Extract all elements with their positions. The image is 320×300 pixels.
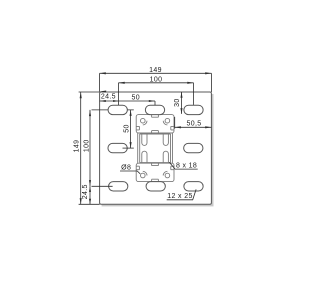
dimension lines (79, 73, 212, 204)
ext line row1 (92, 109, 134, 111)
svg-text:24.5: 24.5 (82, 184, 89, 199)
dim 100 left line (89, 110, 91, 186)
slot row3 col3 (184, 182, 203, 191)
ext line 100 left (118, 83, 120, 105)
leader 12x25 (167, 189, 196, 199)
slot throat top section bottom edge (152, 131, 159, 133)
arrow 30 top (180, 92, 182, 98)
arrow 100 left bottom (89, 180, 91, 186)
svg-text:12 x 25: 12 x 25 (167, 193, 192, 200)
web bottom line (140, 162, 171, 164)
svg-text:24.5: 24.5 (101, 94, 116, 101)
svg-text:50,5: 50,5 (186, 120, 201, 127)
slot throat bottom section bottom edge (152, 179, 159, 181)
arrow 24.5/50 mid (113, 100, 118, 102)
slot row1 col1 (108, 105, 127, 114)
profile cross-section top square (136, 115, 174, 133)
dimension texts (74, 67, 202, 200)
slot row3 col2 (146, 182, 165, 191)
profile cross-section bottom square (136, 163, 174, 181)
ext line row2 (123, 147, 134, 149)
web top line (140, 133, 171, 135)
arrow 50,5 right (205, 126, 211, 128)
slot row2 col1 (108, 143, 127, 152)
slot row1 col3 (184, 105, 203, 114)
plate shadow (102, 94, 214, 206)
boss arc bottom-right (163, 171, 167, 175)
arrow 149 left top (80, 92, 82, 98)
arrow 24.5 left (100, 100, 106, 102)
svg-text:Ø8: Ø8 (121, 164, 131, 171)
svg-text:100: 100 (150, 76, 163, 83)
ext line col2 (154, 101, 156, 105)
slot throat top section left edge (136, 126, 139, 129)
ext line 50,5 left (174, 117, 176, 129)
ext line row3 (92, 185, 113, 187)
left wall (138, 133, 140, 163)
arrow 100 top right (187, 82, 193, 84)
svg-text:100: 100 (83, 139, 90, 152)
ext line left bottom (79, 203, 100, 205)
dim 30 line (181, 92, 183, 114)
ext line top-right up (210, 73, 212, 92)
svg-text:149: 149 (149, 67, 162, 74)
plate 149x149 (100, 92, 212, 204)
slot throat bottom section left edge (136, 166, 139, 170)
arrow 149 top left (100, 72, 106, 74)
arrow 50 inner top (130, 110, 132, 116)
slot row2 col3 (184, 143, 203, 152)
slot row3 col1 (109, 182, 128, 191)
arrowheads (80, 72, 212, 204)
arrow 50 inner bottom (130, 142, 132, 148)
slot throat top section top edge (152, 115, 159, 118)
dim 24.5 left line (89, 186, 91, 204)
arrow 149 left bottom (80, 198, 82, 204)
arrow 24.5 left bottom (89, 199, 91, 205)
hook slot lower-right (163, 151, 168, 162)
dim 149 top line (100, 72, 212, 74)
arrow 50 right (149, 100, 155, 102)
svg-text:8 x 18: 8 x 18 (176, 163, 197, 170)
arrow 30 bottom (180, 108, 182, 114)
leader Ø8 (120, 171, 140, 174)
ext line 100 right (193, 83, 195, 105)
dim 50,5 line (175, 126, 212, 128)
svg-text:50: 50 (124, 124, 131, 133)
slot throat bottom section top edge (152, 163, 159, 165)
boss arc top-right (163, 121, 167, 125)
right wall (171, 133, 173, 163)
slot throat bottom section right edge (171, 166, 174, 170)
boss arc bottom-left (143, 171, 147, 175)
screw hole top-right (165, 118, 170, 123)
boss arc top-left (143, 121, 147, 125)
hook slot lower-left (142, 151, 147, 162)
dim 50 inner line (130, 110, 132, 148)
arrow 100 left top (89, 110, 91, 116)
screw hole top-left (141, 118, 146, 123)
ext line top-left up (99, 73, 101, 92)
screw hole bottom-left (141, 173, 146, 178)
svg-text:50: 50 (132, 94, 141, 101)
arrow 149 top right (205, 72, 211, 74)
hook slot upper-right (163, 134, 168, 145)
arrow at plate corner on top edge (100, 91, 107, 93)
dim 100 top line (119, 82, 194, 84)
svg-text:30: 30 (174, 98, 181, 107)
leader lines (120, 162, 198, 200)
arrow 50,5 left (175, 126, 181, 128)
ext line left top (79, 91, 100, 93)
dim 149 left line (80, 92, 82, 204)
slot row1 col2 (145, 105, 164, 114)
profile middle webs and walls (138, 133, 173, 163)
dim 24.5/50 chain line (100, 100, 155, 102)
screw hole bottom-right (165, 173, 170, 178)
arrow 24.5 left top (89, 186, 91, 192)
svg-text:149: 149 (74, 140, 81, 153)
mounting slots 12x25 (stadium shapes) (108, 105, 203, 191)
hook slot upper-left (142, 134, 147, 145)
slot throat top section right edge (171, 126, 174, 129)
leader 8x18 (169, 162, 197, 169)
arrow 100 top left (119, 82, 125, 84)
